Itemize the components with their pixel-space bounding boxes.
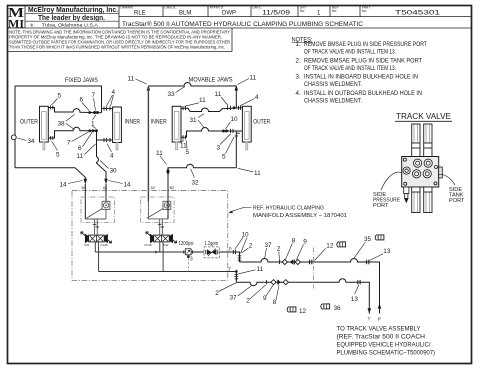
internal links box2 (148, 202, 168, 235)
movable top interconnect wire A' (181, 108, 242, 112)
svg-text:APPRV'D:: APPRV'D: (210, 6, 225, 10)
svg-text:2: 2 (246, 298, 250, 305)
svg-text:INSTALL IN INBOARD BULKHEAD HO: INSTALL IN INBOARD BULKHEAD HOLE IN (304, 74, 418, 81)
fixed jaws top wire (15, 86, 102, 168)
B2 arrow into manifold (166, 171, 170, 176)
label 12 lower with plug icon (287, 307, 306, 315)
solenoid symbol 2 (163, 201, 171, 209)
svg-text:CHASSIS WELDMENT.: CHASSIS WELDMENT. (304, 98, 362, 105)
svg-text:THAN THOSE FOR WHICH IT WAS FU: THAN THOSE FOR WHICH IT WAS FURNISHED WI… (9, 44, 225, 49)
label 3 (217, 134, 231, 151)
label 9 (upper) (297, 238, 308, 259)
svg-text:MANIFOLD ASSEMBLY – 1870401: MANIFOLD ASSEMBLY – 1870401 (253, 213, 347, 219)
track valve bottom spool right (424, 187, 432, 213)
svg-text:7: 7 (92, 92, 96, 99)
label 31 (190, 114, 205, 128)
label 6 (top) (80, 97, 90, 111)
svg-text:CW: CW (84, 243, 89, 247)
svg-text:11: 11 (250, 75, 257, 82)
label 14 (A1) (109, 181, 132, 189)
svg-text:11: 11 (199, 97, 206, 104)
title block grid (7, 5, 472, 52)
svg-text:PLUMBING SCHEMATIC–T5000907): PLUMBING SCHEMATIC–T5000907) (337, 351, 436, 357)
label 11 (T junction) (239, 266, 264, 274)
svg-text:OF TRACK VALVE AND INSTALL ITE: OF TRACK VALVE AND INSTALL ITEM 13. (304, 65, 396, 72)
arrow T down (368, 308, 372, 313)
label 2 (lower tick) (246, 285, 265, 305)
rail to flow control (191, 251, 204, 253)
svg-text:12: 12 (326, 242, 334, 249)
svg-text:TO TRACK VALVE ASSEMBLY: TO TRACK VALVE ASSEMBLY (337, 327, 421, 333)
svg-text:FIXED JAWS: FIXED JAWS (65, 77, 98, 84)
label 1 with pointers (91, 115, 96, 129)
label 11 (inner bottom) (180, 140, 187, 149)
label 34 (17, 138, 35, 145)
B1 exit wire (15, 168, 85, 184)
P port ticks (233, 250, 241, 260)
arrow right corner (11) (235, 85, 239, 90)
svg-text:OUTER: OUTER (253, 119, 270, 126)
svg-text:CCW: CCW (101, 243, 108, 247)
outer bottom port ticks (231, 129, 240, 136)
svg-text:5: 5 (222, 153, 226, 160)
movable bottom interconnect wire B' (187, 128, 243, 138)
to track valve text (337, 327, 436, 357)
svg-text:10: 10 (242, 231, 250, 238)
label 7 (top) (92, 92, 96, 111)
arrow A1 (104, 179, 108, 184)
junction dots wire B' (222, 130, 228, 133)
movable bottom wire with hump 32 (168, 164, 236, 190)
svg-text:2: 2 (249, 242, 253, 249)
label 37 (lower hump) (230, 286, 252, 302)
company name block (28, 5, 118, 28)
svg-text:12: 12 (299, 308, 307, 315)
arrow bottom-left corner (166, 167, 170, 172)
track valve test fitting (404, 187, 409, 202)
wire from inner bottom port to A1 with hump 30 (97, 140, 107, 184)
label 12 upper with plug icon (315, 242, 346, 261)
B2 wire into manifold (167, 189, 169, 219)
movable inner cylinder (172, 106, 181, 150)
label 8 (upper) (286, 238, 296, 260)
svg-text:P: P (229, 247, 232, 252)
label 33 (168, 87, 186, 99)
svg-text:5: 5 (56, 152, 60, 159)
svg-text:10: 10 (231, 116, 239, 123)
svg-text:13: 13 (383, 248, 391, 255)
ticks on valve feeds box1 (93, 224, 99, 227)
svg-text:A2: A2 (151, 186, 155, 190)
svg-text:MOVABLE JAWS: MOVABLE JAWS (189, 76, 233, 83)
open diamond (282, 259, 287, 264)
svg-text:36: 36 (334, 305, 342, 312)
label 2 (P corner) (242, 242, 253, 253)
svg-text:RLE: RLE (134, 11, 146, 17)
label 11 (fixed top right) (128, 76, 147, 85)
label 14 (B1) (60, 181, 83, 189)
svg-text:BLM: BLM (179, 11, 191, 17)
solenoid sub-box 1 (81, 197, 114, 223)
label 7 (bottom) (67, 132, 89, 146)
cross fitting into inner bottom port (104, 138, 110, 142)
svg-text:7: 7 (67, 139, 71, 146)
label 2 (upper tick) (277, 245, 281, 260)
cross fitting into inner top port (102, 106, 113, 110)
McElroy MMI logo (8, 5, 25, 31)
B1 wire into manifold (84, 184, 86, 219)
T port junction (236, 270, 237, 283)
svg-text:A1: A1 (103, 186, 107, 190)
svg-text:T5045301: T5045301 (395, 9, 441, 16)
label 11 (bottom wire right) (238, 168, 261, 177)
svg-text:No:: No: (362, 9, 367, 13)
svg-text:5: 5 (186, 149, 190, 156)
label 11 (outer top left tick) (215, 91, 229, 106)
svg-text:11: 11 (156, 150, 163, 157)
label 11 (movable top wire right) (238, 75, 257, 85)
svg-text:4.: 4. (296, 90, 301, 97)
svg-text:35: 35 (364, 236, 372, 243)
svg-text:2: 2 (277, 245, 281, 252)
svg-text:REMOVE BMSAE PLUG IN SIDE TANK: REMOVE BMSAE PLUG IN SIDE TANK PORT (304, 58, 422, 65)
P port wire (219, 252, 239, 262)
svg-text:11: 11 (254, 170, 261, 177)
label 8 (lower) (273, 285, 279, 306)
track valve body (402, 157, 443, 188)
svg-text:OUTER: OUTER (20, 119, 38, 126)
ticks on valve feeds box2 (158, 224, 164, 227)
svg-text:11: 11 (128, 76, 135, 83)
label 9 (lower) (263, 285, 273, 302)
TRACK VALVE heading (395, 112, 452, 121)
upper pressure run to track valve (240, 259, 380, 314)
track valve bottom spool left (412, 187, 420, 213)
A1 wire into manifold (105, 184, 107, 210)
svg-text:®: ® (30, 22, 34, 28)
svg-text:11/5/09: 11/5/09 (262, 11, 291, 17)
lower tank run to track valve (238, 279, 370, 314)
track valve top spool right (424, 124, 432, 157)
label 5 (outer bottom movable) (222, 137, 234, 160)
label 32 (191, 169, 200, 187)
fixed inner cylinder (113, 107, 122, 150)
label 38 with pointers (58, 115, 75, 130)
svg-text:34: 34 (28, 138, 36, 145)
svg-text:2.: 2. (296, 58, 301, 65)
svg-text:No:: No: (332, 9, 337, 13)
svg-text:CCW: CCW (144, 243, 151, 247)
svg-text:37: 37 (265, 242, 273, 249)
solenoid symbol 1 (102, 201, 110, 209)
A2 wire down (gray heavy) (147, 86, 149, 202)
svg-text:6: 6 (78, 145, 82, 152)
label 10 with leaders (235, 231, 249, 253)
REF manifold label (228, 205, 347, 219)
actuation diagonal 1 (87, 209, 103, 219)
double tick bulkhead (309, 260, 311, 265)
label 11 (fixed bottom) (77, 144, 96, 160)
grommet 34 (11, 135, 16, 140)
svg-text:37: 37 (230, 294, 238, 301)
svg-text:11: 11 (215, 91, 222, 98)
svg-text:4: 4 (112, 89, 116, 96)
svg-text:8: 8 (292, 238, 296, 245)
svg-text:The leader by design.: The leader by design. (38, 13, 105, 22)
label 5 (outer top) (52, 93, 62, 106)
svg-text:14: 14 (60, 182, 68, 189)
open diamond 2 (295, 259, 300, 264)
side tank port label (439, 174, 465, 204)
lower run fittings (267, 280, 361, 285)
label 30 (100, 161, 117, 175)
track valve top spool left (412, 124, 420, 157)
label 11 (inner top) (185, 97, 207, 107)
label 4 (movable) (240, 94, 259, 106)
actuation diagonal 2 (147, 209, 163, 219)
svg-text:31: 31 (190, 117, 198, 124)
arrow P up (378, 303, 382, 308)
fitting ticks outer bottom port (51, 136, 53, 140)
svg-text:6: 6 (80, 97, 84, 104)
inner top port ticks (183, 106, 186, 110)
label 13 upper (370, 248, 391, 261)
svg-text:11: 11 (77, 153, 84, 160)
svg-text:PORT: PORT (373, 203, 389, 209)
svg-text:4: 4 (255, 94, 259, 101)
svg-text:30: 30 (110, 167, 118, 174)
label 4 (top) (107, 89, 116, 106)
label 6 (bottom) (78, 132, 92, 152)
junction dot outer top (233, 106, 236, 109)
label 5 (outer bottom) (52, 141, 61, 159)
internal links box1 (85, 209, 106, 234)
svg-text:INNER: INNER (125, 119, 141, 126)
movable jaws top wire with hump 33 (148, 83, 236, 108)
svg-text:CHECK:: CHECK: (165, 6, 177, 10)
svg-text:13: 13 (351, 296, 359, 303)
svg-text:1200psi: 1200psi (179, 241, 194, 247)
svg-text:32: 32 (192, 179, 200, 186)
title fields row (121, 6, 441, 17)
label 10 (movable) (226, 116, 239, 129)
flow control 1.2gpm (204, 241, 219, 258)
label 11 (bottom wire left) (156, 150, 167, 165)
double tick 13 (366, 260, 368, 265)
label 2 (T corner) (215, 283, 236, 297)
label 4 (bottom) (107, 144, 114, 160)
svg-text:38: 38 (58, 121, 66, 128)
svg-text:3.: 3. (296, 74, 301, 81)
svg-text:INSTALL IN OUTBOARD BULKHEAD H: INSTALL IN OUTBOARD BULKHEAD HOLE IN (304, 90, 422, 97)
arrow B1 (84, 179, 88, 184)
fixed outer cylinder (40, 106, 49, 150)
solenoid sub-box 2 (141, 197, 174, 223)
svg-text:TRACK VALVE: TRACK VALVE (396, 112, 452, 121)
upper run fittings (280, 259, 369, 264)
notes list (292, 36, 428, 104)
svg-text:DATE:: DATE: (253, 6, 262, 10)
svg-text:No:: No: (300, 9, 305, 13)
svg-text:T: T (368, 316, 371, 322)
outer top port fitting row (228, 106, 241, 110)
svg-text:9: 9 (303, 238, 307, 245)
relief valve 1200psi (179, 241, 194, 271)
label 36 with plug icon (321, 304, 341, 312)
fixed top interconnect wire A (48, 108, 101, 113)
label 13 lower (351, 285, 359, 303)
T junction dot and ticks (235, 270, 238, 273)
svg-text:5: 5 (58, 93, 62, 100)
label 5 (inner bottom) (186, 141, 190, 156)
tick 2 (279, 260, 281, 264)
pressure rail gray (95, 242, 185, 252)
inner bottom port ticks (181, 135, 187, 139)
proprietary note paragraph (9, 29, 230, 49)
svg-text:T: T (228, 266, 231, 271)
svg-text:INNER: INNER (151, 119, 167, 126)
svg-text:CHASSIS WELDMENT.: CHASSIS WELDMENT. (304, 81, 362, 88)
svg-text:1: 1 (91, 120, 95, 127)
svg-text:DWP: DWP (222, 11, 236, 17)
label 37 (upper hump) (265, 242, 273, 259)
svg-text:REF. HYDRAULIC CLAMPING: REF. HYDRAULIC CLAMPING (253, 205, 324, 211)
svg-text:(REF. TracStar 500 II COACH: (REF. TracStar 500 II COACH (337, 335, 426, 341)
label 14 leaders near B1 A1 (85, 184, 106, 219)
chassis dash-dot line (312, 248, 314, 289)
tank rail gray (99, 242, 237, 271)
arrow left corner (11) (147, 85, 151, 90)
movable outer cylinder (242, 106, 251, 150)
svg-text:EQUIPPED VEHICLE HYDRAULIC/: EQUIPPED VEHICLE HYDRAULIC/ (337, 343, 431, 349)
svg-text:3: 3 (217, 144, 221, 151)
svg-text:Tulsa, Oklahoma U.S.A: Tulsa, Oklahoma U.S.A (42, 23, 98, 28)
svg-text:2: 2 (215, 290, 219, 297)
svg-text:1: 1 (317, 10, 321, 16)
svg-text:4: 4 (110, 153, 114, 160)
svg-text:11: 11 (257, 266, 264, 273)
svg-text:1.2gpm: 1.2gpm (205, 241, 219, 247)
junction dots wire B (88, 129, 98, 132)
solenoid valve 2 (4-way) (146, 232, 177, 243)
svg-text:3: 3 (190, 257, 193, 263)
label 35 with plug icon (354, 235, 384, 259)
svg-text:B2: B2 (170, 186, 174, 190)
svg-text:OF TRACK VALVE AND INSTALL ITE: OF TRACK VALVE AND INSTALL ITEM 13. (304, 49, 396, 56)
svg-text:TracStar® 500 II AUTOMATED HYD: TracStar® 500 II AUTOMATED HYDRAULIC CLA… (122, 20, 363, 28)
junction dots wire A (88, 111, 99, 114)
fixed bottom interconnect wire B (48, 127, 112, 140)
svg-text:1.: 1. (296, 41, 301, 48)
svg-text:P: P (378, 316, 381, 322)
track valve port circles (403, 158, 438, 185)
coupler filled (290, 259, 294, 264)
side pressure port label (373, 172, 402, 209)
solenoid valve 1 (4-way) (81, 232, 112, 243)
svg-text:DRAWN:: DRAWN: (121, 6, 134, 10)
right vertical to bottom rail (235, 131, 237, 168)
svg-text:33: 33 (168, 91, 176, 98)
svg-text:14: 14 (124, 182, 132, 189)
svg-text:CW: CW (163, 243, 168, 247)
svg-text:REMOVE BMSAE PLUG IN SIDE PRES: REMOVE BMSAE PLUG IN SIDE PRESSURE PORT (304, 41, 427, 48)
fitting ticks outer top port (51, 106, 53, 110)
manifold dashed box (72, 191, 228, 281)
svg-text:PORT: PORT (449, 198, 465, 204)
